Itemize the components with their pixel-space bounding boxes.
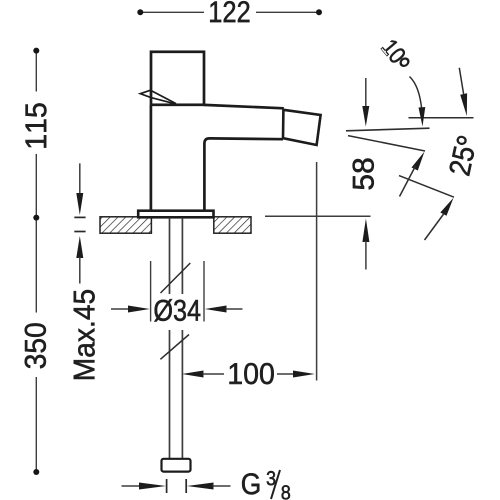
dim O34 label	[154, 299, 200, 321]
dim 122 label	[210, 1, 249, 22]
dim G3/8 tick left	[166, 479, 168, 493]
arrow pointing down at line C (tilted)	[459, 68, 467, 116]
dim 58 label	[353, 159, 374, 190]
faucet spout top edge	[204, 105, 284, 108]
dim 100 right arrow	[277, 371, 315, 378]
dim 100 left arrow	[182, 371, 224, 378]
dim G3/8 left arrow	[122, 483, 167, 490]
supply rod right line upper	[181, 218, 183, 294]
faucet body left edge	[150, 105, 153, 211]
faucet base flange	[138, 211, 213, 218]
outlet plane line A (horizontal)	[346, 128, 430, 131]
dim 122 top: line	[140, 11, 319, 13]
dim Max.45: upper arrow	[76, 163, 83, 215]
countertop slab right (hatched)	[214, 217, 251, 233]
dim Max.45: lower arrow	[76, 236, 83, 284]
dim O34 extension line right	[203, 261, 205, 322]
dim 350 endpoint dot bottom	[33, 469, 39, 475]
label G 3/8: fraction slash	[271, 470, 280, 499]
dim 100 label	[229, 363, 273, 384]
tangent arrow at end of line D	[425, 198, 454, 240]
dim 10deg leader arc with arrow	[410, 77, 426, 127]
supply rod left line lower	[169, 330, 171, 459]
dim 115/350 vertical line	[35, 51, 37, 472]
dim G3/8 right arrow	[187, 483, 231, 490]
dim Max.45: lower tick	[74, 231, 85, 233]
dim 115 label	[26, 103, 47, 147]
angled line D (25 deg)	[399, 176, 454, 198]
dim O34 left arrow	[111, 306, 150, 313]
dim 58: upper arrow (pointing down)	[362, 78, 369, 127]
outlet tilt line B (10 deg)	[348, 136, 425, 151]
hose end nut	[162, 459, 191, 472]
label G 3/8: G	[242, 473, 259, 494]
rod break mark 2	[160, 335, 189, 360]
label G 3/8: denominator 8	[282, 485, 290, 499]
tangent arrow at end of line B	[400, 152, 425, 197]
dim 122 endpoint dot right	[316, 9, 322, 15]
dim 10deg label	[381, 38, 413, 72]
handle lever wedge	[151, 90, 177, 104]
dim O34 right arrow	[205, 306, 243, 313]
faucet spout bottom edge and body right edge	[204, 138, 283, 210]
rod break mark 1	[161, 263, 191, 293]
dim 350 label	[25, 323, 46, 368]
dim G3/8 tick right	[185, 479, 187, 493]
horizontal reference line C	[409, 117, 474, 119]
dim 58: lower arrow (pointing up)	[362, 219, 369, 270]
label G 3/8: numerator 3	[267, 471, 275, 485]
dim 122 endpoint dot left	[137, 9, 143, 15]
dim Max.45 label	[74, 290, 95, 379]
countertop slab left (hatched)	[100, 217, 151, 233]
supply rod right line lower	[181, 330, 183, 459]
dim O34 extension line left	[150, 261, 152, 322]
dim 115 endpoint dot top	[33, 48, 39, 54]
spout axis extension line (vertical)	[316, 162, 318, 381]
faucet handle square	[151, 52, 204, 105]
aerator end piece (tilted square)	[283, 110, 321, 145]
dim 115/350 shared dot	[33, 215, 39, 221]
dim 25deg label	[449, 135, 478, 176]
handle lever tip (protruding left)	[140, 90, 150, 97]
countertop surface extension line (horizontal)	[265, 215, 371, 217]
supply rod left line upper	[169, 218, 171, 294]
dim Max.45: upper tick	[74, 216, 85, 218]
